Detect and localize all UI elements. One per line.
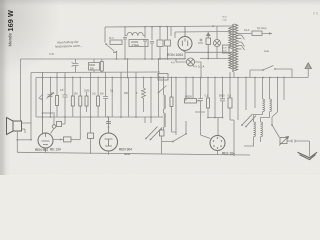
switch S4 (bottom, near output transformer) xyxy=(242,114,256,127)
label V1 xyxy=(35,148,61,153)
detector tube V2 REN904 xyxy=(100,133,118,151)
earth/ground symbol xyxy=(298,152,318,159)
node dots on y117 xyxy=(42,116,137,118)
annotation note (italic, top-left) xyxy=(55,40,83,49)
label box (mains voltage) xyxy=(223,45,230,53)
capacitor C2 xyxy=(143,27,147,59)
bottom bus (ground) xyxy=(17,152,250,155)
capacitor C3 xyxy=(150,27,154,59)
wire: drop x171 from top line xyxy=(170,26,172,36)
svg-text:2W: 2W xyxy=(90,66,94,70)
choke Dr2 (horizontal box) xyxy=(53,139,80,141)
wire x121 xyxy=(120,72,122,117)
wire: filament line y52.3 xyxy=(181,50,232,53)
wire: drop x175 from inner line xyxy=(174,32,176,38)
wire: top feed line y27 xyxy=(105,26,233,27)
wire x234 (right of V3) xyxy=(233,120,235,155)
resistor R6 (horizontal w/ label) xyxy=(186,78,201,101)
switch S6 (gramophone switch) xyxy=(162,134,186,142)
wire x238 xyxy=(237,78,239,121)
wire: jog y113 xyxy=(43,112,54,114)
wire x112.2 xyxy=(111,78,113,118)
wire: jog x171.5/x176.5 xyxy=(172,117,177,132)
capacitor C13 (electrolytic, power) xyxy=(206,38,211,45)
wire x158.5 xyxy=(158,59,160,117)
capacitor C1 xyxy=(123,28,127,45)
capacitor C7 xyxy=(103,72,108,117)
wire: main HT line y59 xyxy=(21,58,186,60)
capacitor C6 xyxy=(63,72,68,117)
T2 lower windings xyxy=(254,122,263,137)
wire: main bus y77.5 xyxy=(36,77,308,79)
wire: y139.8 link xyxy=(17,139,31,141)
IF coil L2 (two stacked springs) xyxy=(164,95,166,127)
power transformer T1 xyxy=(229,24,238,72)
wire to earth xyxy=(287,140,310,157)
resistor R12 (near V2) xyxy=(90,117,92,154)
capacitor C8 xyxy=(198,78,203,136)
wire: mains line with fuse F1 xyxy=(237,33,272,35)
svg-text:4 V: 4 V xyxy=(171,62,175,65)
label V3 xyxy=(222,152,235,156)
transformer voltage taps xyxy=(238,35,245,50)
svg-text:0,5: 0,5 xyxy=(228,95,232,98)
jack J1 (box with arrow) xyxy=(280,138,287,144)
wire x246 xyxy=(245,78,247,111)
svg-text:2 0: 2 0 xyxy=(313,12,318,16)
svg-text:1000: 1000 xyxy=(84,90,90,93)
wire x72.8 + resistor R2 xyxy=(72,78,74,118)
capacitor C5 (box) xyxy=(165,40,171,46)
wire: x31 drop xyxy=(30,73,32,140)
wire: power box inner line y32 xyxy=(175,31,230,34)
svg-text:Aus: Aus xyxy=(264,49,269,53)
svg-text:2: 2 xyxy=(136,92,138,95)
switch S5 + pickup jack xyxy=(272,78,278,126)
label V2 xyxy=(119,148,132,157)
coil L1 (bump coil) xyxy=(127,32,143,35)
svg-text:Mende: Mende xyxy=(8,33,13,47)
wire x255 xyxy=(254,78,256,109)
wire: bus y72.5 xyxy=(31,71,160,74)
capacitor C11 (mains aerial cap) xyxy=(73,59,79,72)
svg-text:0,1 Amp: 0,1 Amp xyxy=(257,26,267,30)
wire x128.5 xyxy=(128,78,130,118)
small labels mid band xyxy=(40,92,104,101)
resistor R13 xyxy=(171,78,173,118)
capacitor C14 (small box, bottom middle) xyxy=(160,130,165,136)
svg-text:0,5: 0,5 xyxy=(92,93,96,96)
svg-text:2M: 2M xyxy=(74,93,77,96)
resistor R4 xyxy=(87,72,91,117)
capacitor C9 xyxy=(220,78,225,118)
node +Ub mark xyxy=(198,39,203,44)
node dots on y59 xyxy=(116,58,169,60)
wire: V3 grid drop xyxy=(217,118,219,136)
wire: filament line y58.6 xyxy=(200,58,232,60)
wire x50.5 xyxy=(50,78,52,118)
svg-text:169 W: 169 W xyxy=(6,10,15,31)
svg-text:1M: 1M xyxy=(100,93,103,96)
wire: x36 drop xyxy=(35,78,37,118)
wire x127.5 (between y59 and bus) xyxy=(127,59,129,78)
svg-text:Netz: Netz xyxy=(223,16,228,19)
wire x193 xyxy=(192,78,194,99)
wire: choke/box on bus at x158-168 xyxy=(158,74,168,81)
svg-text:REN 904: REN 904 xyxy=(119,148,132,152)
coil L3 (small, on x143.5) xyxy=(143,78,145,113)
svg-text:300: 300 xyxy=(124,92,129,95)
svg-text:Dr II: Dr II xyxy=(109,37,114,40)
trimmer C15 xyxy=(47,93,54,99)
audio tube V1 REN904 xyxy=(38,133,53,148)
wire: heater line to lamp xyxy=(158,58,186,60)
choke Dr1 (box left of label box) xyxy=(110,40,122,45)
resistor R5 xyxy=(97,78,99,118)
title Mende 169 W xyxy=(6,10,15,46)
speaker LS xyxy=(13,121,22,131)
svg-text:125: 125 xyxy=(223,48,227,50)
svg-text:0,1: 0,1 xyxy=(205,95,209,98)
svg-text:5000: 5000 xyxy=(219,95,225,98)
svg-text:0,1: 0,1 xyxy=(51,92,55,95)
antenna symbol xyxy=(305,63,312,69)
rectifier tube U4 RGN1064 xyxy=(178,37,192,51)
wire x215 xyxy=(214,78,216,118)
resistor R8 (block) xyxy=(230,78,234,121)
capacitor C16 (grid of V2) xyxy=(106,122,111,124)
svg-text:0,1: 0,1 xyxy=(110,90,114,93)
svg-text:4 V 0,1 A: 4 V 0,1 A xyxy=(193,64,204,68)
resistor R3 xyxy=(79,78,81,118)
wire: left edge drop x20.5 xyxy=(20,59,22,121)
svg-text:4 W: 4 W xyxy=(49,52,54,56)
svg-text:Netzantenne wenn...: Netzantenne wenn... xyxy=(55,44,83,49)
switch S2 (right top, mains switch) xyxy=(250,69,292,70)
wire: jog y112-117 xyxy=(195,112,223,118)
wire x136 xyxy=(135,72,137,117)
primary label xyxy=(223,16,228,22)
wire: drop from top line at x105 xyxy=(104,27,106,43)
svg-text:0,1A: 0,1A xyxy=(244,28,250,32)
wire: speaker down leg xyxy=(16,131,18,152)
svg-text:50000: 50000 xyxy=(185,96,193,99)
capacitor C12 (block, labelled box) xyxy=(89,63,100,71)
resistor R11 xyxy=(100,62,103,72)
svg-text:2 Watt: 2 Watt xyxy=(132,43,140,47)
dial lamp LP1 xyxy=(214,40,221,47)
resistor R1 xyxy=(56,72,58,117)
output transformer T2 upper windings xyxy=(263,99,272,112)
wire: bus y117 (grid bus) xyxy=(36,116,163,118)
svg-text:0,5: 0,5 xyxy=(60,89,64,92)
grid cap of V1 xyxy=(52,125,56,129)
wire x151 xyxy=(150,78,152,118)
resistor R7 xyxy=(207,78,209,118)
svg-text:RE 134: RE 134 xyxy=(50,148,61,152)
wire x176 xyxy=(175,78,177,136)
svg-text:RGN 1064: RGN 1064 xyxy=(167,53,183,57)
wire: transformer bottom leads xyxy=(230,72,234,78)
capacitor C4 (box) xyxy=(157,40,163,47)
wire x284 xyxy=(283,78,285,101)
lamp LP2 xyxy=(187,58,195,66)
svg-text:trafo: trafo xyxy=(223,19,228,22)
output tube V3 RES164 xyxy=(210,136,225,151)
extra tiny labels xyxy=(60,89,138,95)
switch S3 (bottom middle, double lever) xyxy=(146,127,162,140)
grid leak R9 xyxy=(57,122,62,127)
svg-text:REN 904: REN 904 xyxy=(35,148,48,152)
label box (2 Watt) xyxy=(129,40,148,47)
svg-text:Dr: Dr xyxy=(159,76,162,80)
node dots on main bus xyxy=(50,77,285,79)
switch S1 (band switch) xyxy=(106,44,115,52)
switch S7 (wave change, small lever) xyxy=(159,86,167,93)
node dots on top line xyxy=(124,25,214,28)
